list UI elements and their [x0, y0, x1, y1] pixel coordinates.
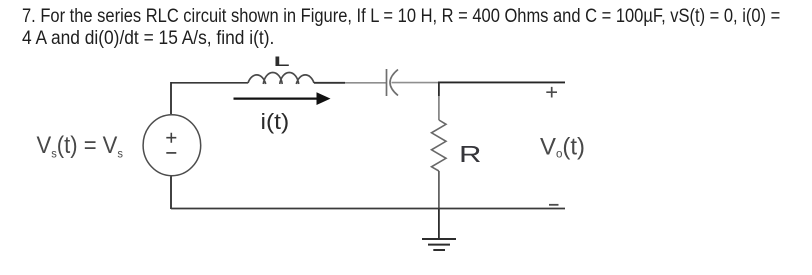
wire: source bottom lead vertical: [170, 176, 172, 209]
node junction at top of R branch: [438, 82, 440, 96]
current arrow i(t): [234, 92, 331, 105]
problem statement text line 2: [22, 29, 274, 48]
output minus terminal: [549, 204, 559, 206]
svg-text:Vo(t): Vo(t): [540, 134, 585, 161]
ground symbol: [422, 239, 456, 250]
svg-text:Vs(t) = Vs: Vs(t) = Vs: [37, 131, 124, 160]
svg-text:R: R: [459, 141, 481, 167]
voltage source circle: [143, 115, 201, 176]
source polarity minus: [166, 152, 176, 154]
svg-text:i(t): i(t): [261, 109, 290, 133]
wire: R top lead: [438, 96, 440, 120]
wire: bottom rail: [171, 208, 565, 210]
wire: ground stem below bottom rail: [438, 209, 440, 240]
wire: top rail between inductor and capacitor: [314, 82, 345, 84]
wire: R bottom lead down to bottom rail: [438, 171, 440, 209]
capacitor C left plate: [386, 69, 388, 96]
source polarity plus: [166, 133, 176, 143]
capacitor C right curved plate: [390, 70, 398, 96]
problem statement text line 1: [22, 7, 780, 26]
output plus terminal: [546, 87, 557, 98]
wire: top rail right segment to output: [438, 81, 565, 83]
wire: source top lead vertical: [170, 82, 172, 114]
inductor L coil: [248, 72, 314, 84]
wire: top rail left segment (source to inductor): [171, 82, 248, 84]
svg-text:L: L: [274, 54, 290, 70]
wire: top rail from capacitor to junction: [392, 82, 440, 84]
resistor R zigzag: [432, 120, 447, 171]
